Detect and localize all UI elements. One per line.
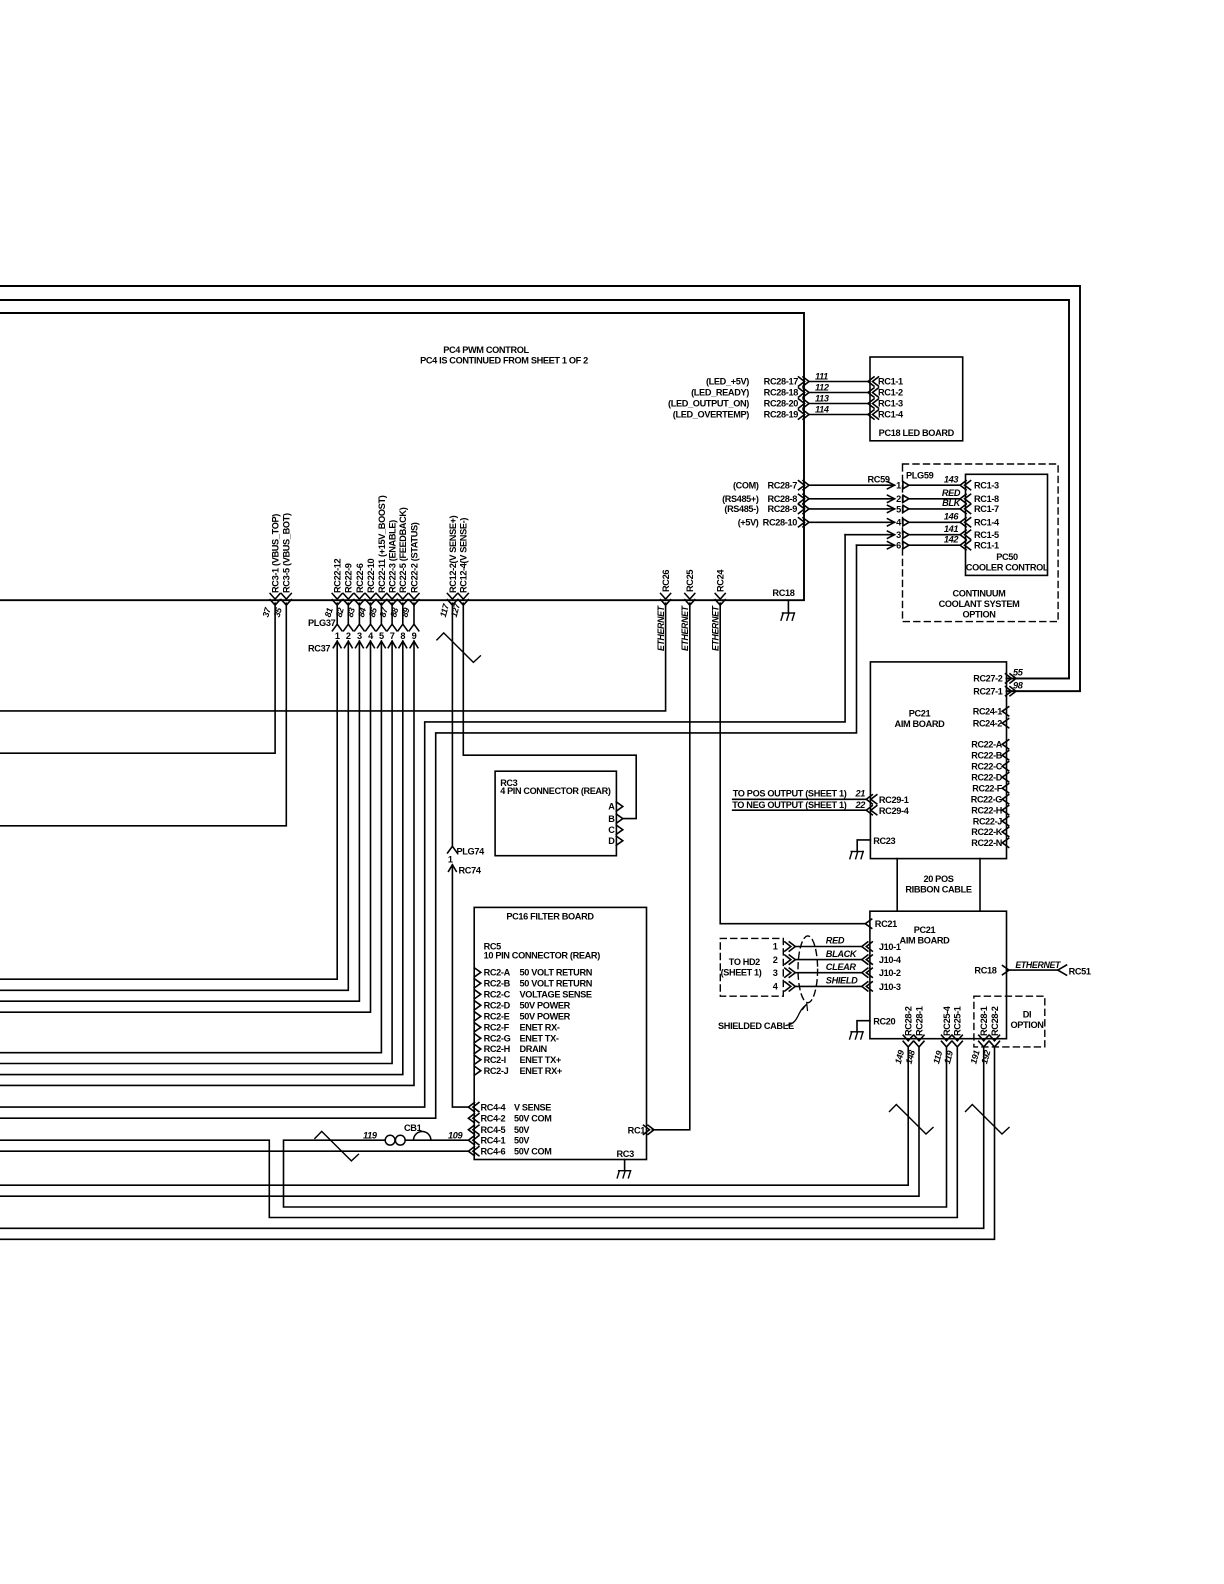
svg-text:RC51: RC51 — [1069, 967, 1091, 977]
wire PLG59 pin3 to page edge — [0, 535, 845, 1107]
svg-text:RC22-12: RC22-12 — [333, 558, 343, 593]
connector PC50 COOLER CONTROL box — [966, 474, 1048, 575]
pin RC4-1 50V — [473, 1136, 479, 1145]
svg-text:RC22-5 (FEEDBACK): RC22-5 (FEEDBACK) — [398, 507, 408, 593]
svg-text:RC2-F: RC2-F — [484, 1023, 510, 1033]
svg-text:RC4-4: RC4-4 — [481, 1102, 507, 1112]
pin RC4-6 50V COM — [473, 1147, 479, 1156]
wire RC37 pin 1 — [336, 603, 338, 624]
wire net 55 second rail — [0, 300, 1069, 678]
svg-text:RC22-G: RC22-G — [971, 794, 1003, 804]
node tap RC25 ethernet — [685, 594, 695, 600]
svg-text:146: 146 — [944, 512, 960, 522]
svg-text:ETHERNET: ETHERNET — [710, 605, 720, 651]
svg-text:RC24-2: RC24-2 — [973, 718, 1003, 728]
wire pin 5 BLK to RC1-7 — [809, 508, 888, 510]
svg-text:CB1: CB1 — [404, 1123, 422, 1133]
svg-text:RC28-9: RC28-9 — [767, 504, 797, 514]
svg-text:ENET TX+: ENET TX+ — [520, 1055, 561, 1065]
svg-text:RC1-2: RC1-2 — [878, 388, 903, 398]
svg-text:RC22-J: RC22-J — [973, 816, 1003, 826]
option box DI OPTION — [974, 996, 1045, 1047]
node tap RC3-1 wire 37 — [270, 594, 280, 600]
svg-text:RC1-4: RC1-4 — [974, 518, 1000, 528]
wire 149 to page edge — [0, 1047, 908, 1185]
pin RC22-H of AIM board — [1002, 806, 1009, 815]
pin RC22-B of AIM board — [1002, 751, 1009, 760]
connector RC3 4 PIN CONNECTOR (REAR) — [495, 771, 616, 856]
svg-text:RC26: RC26 — [661, 570, 671, 592]
svg-text:1: 1 — [896, 481, 901, 491]
svg-text:RC3-5 (VBUS_BOT): RC3-5 (VBUS_BOT) — [282, 513, 292, 593]
svg-text:DRAIN: DRAIN — [520, 1044, 548, 1054]
svg-text:2: 2 — [346, 631, 351, 641]
svg-text:RC28-17: RC28-17 — [764, 377, 799, 387]
connector PLG37 label — [308, 618, 336, 654]
breaker CB1 — [385, 1135, 395, 1145]
svg-text:J10-1: J10-1 — [879, 942, 901, 952]
svg-text:50V POWER: 50V POWER — [520, 1001, 571, 1011]
svg-text:RC28-7: RC28-7 — [767, 480, 797, 490]
wire 21 TO POS OUTPUT to RC29-1 — [733, 798, 867, 800]
svg-text:RC1-4: RC1-4 — [878, 410, 904, 420]
pin RC22-F of AIM board — [1002, 784, 1009, 793]
svg-text:RC22-K: RC22-K — [971, 827, 1003, 837]
board PC16 FILTER BOARD — [474, 907, 646, 1159]
wire RC37 pin 7 — [391, 603, 393, 624]
pin D of RC3 — [616, 836, 623, 845]
svg-text:9: 9 — [412, 631, 417, 641]
node tap RC26 ethernet — [661, 594, 671, 600]
svg-text:RC22-A: RC22-A — [971, 740, 1003, 750]
pin RC22-G of AIM board — [1002, 795, 1009, 804]
wire RED HD2 pin 1 to J10-1 — [785, 942, 791, 951]
wire pin 1 143 to RC1-3 — [809, 484, 888, 486]
label SHIELDED CABLE with leader — [718, 1021, 794, 1031]
pin B of RC3 — [616, 814, 623, 823]
svg-text:RC28-10: RC28-10 — [763, 518, 798, 528]
svg-text:RC20: RC20 — [873, 1017, 895, 1027]
svg-text:111: 111 — [815, 371, 828, 381]
pin RC28-1 wire 148 bottom of AIM board — [914, 1035, 924, 1041]
svg-text:ENET TX-: ENET TX- — [520, 1033, 559, 1043]
pin RC4-2 50V COM — [473, 1114, 479, 1123]
node tap RC22-5 wire 88 — [398, 594, 408, 600]
wire 111 RC28-17 to RC1-1 — [809, 381, 868, 383]
svg-text:VOLTAGE SENSE: VOLTAGE SENSE — [520, 990, 592, 1000]
svg-text:3: 3 — [357, 631, 362, 641]
wire pin 4 146 to RC1-4 — [809, 521, 888, 523]
wire BLACK HD2 pin 2 to J10-4 — [785, 955, 791, 964]
svg-text:CONTINUUM: CONTINUUM — [953, 589, 1007, 599]
svg-text:98: 98 — [1013, 681, 1024, 691]
svg-text:50 VOLT RETURN: 50 VOLT RETURN — [520, 979, 593, 989]
wire 37 RC3-1 VBUS_TOP — [0, 603, 275, 753]
svg-text:RC28-20: RC28-20 — [764, 399, 799, 409]
svg-text:RC2-D: RC2-D — [484, 1001, 511, 1011]
svg-text:RC3-1 (VBUS_TOP): RC3-1 (VBUS_TOP) — [271, 514, 281, 593]
wire RC24 ethernet to RC21 — [720, 603, 866, 924]
svg-text:3: 3 — [896, 530, 901, 540]
svg-text:50V: 50V — [514, 1125, 529, 1135]
svg-text:B: B — [608, 814, 615, 824]
svg-text:RC1-5: RC1-5 — [974, 530, 999, 540]
svg-text:RC12-4(V SENSE-): RC12-4(V SENSE-) — [459, 518, 469, 593]
svg-text:BLACK: BLACK — [826, 949, 858, 959]
pin RC21 of AIM board — [865, 919, 872, 928]
svg-text:RC22-F: RC22-F — [972, 783, 1003, 793]
wire 119 from AIM RC25-1 — [0, 1047, 957, 1218]
svg-text:ENET RX-: ENET RX- — [520, 1023, 560, 1033]
svg-text:55: 55 — [1013, 667, 1024, 677]
ground RC20 — [851, 1031, 863, 1033]
node tap RC22-2 wire 89 — [409, 594, 419, 600]
svg-text:RC28-2: RC28-2 — [990, 1006, 1000, 1036]
svg-text:50V COM: 50V COM — [514, 1146, 551, 1156]
wire RC20 ground stub — [857, 1021, 870, 1032]
svg-text:(RS485+): (RS485+) — [722, 494, 759, 504]
svg-text:RC4-1: RC4-1 — [481, 1135, 506, 1145]
svg-text:SHIELD: SHIELD — [826, 976, 858, 986]
svg-text:PLG74: PLG74 — [457, 847, 486, 857]
pin RC4-4 V SENSE — [473, 1103, 479, 1112]
svg-text:RC1-8: RC1-8 — [974, 494, 999, 504]
shielded cable ellipse — [798, 936, 818, 1003]
cable 20 POS RIBBON CABLE — [896, 859, 898, 912]
svg-text:PC21: PC21 — [914, 925, 936, 935]
svg-text:RC23: RC23 — [873, 836, 895, 846]
svg-text:RC25-4: RC25-4 — [942, 1005, 952, 1036]
svg-text:RC1-3: RC1-3 — [878, 399, 903, 409]
wire RC26 ethernet — [0, 603, 666, 711]
svg-text:6: 6 — [896, 541, 901, 551]
wire RC3 ground stub — [624, 1160, 626, 1171]
pin RC22-C of AIM board — [1002, 762, 1009, 771]
svg-text:7: 7 — [390, 631, 395, 641]
svg-text:RC21: RC21 — [875, 919, 897, 929]
svg-text:RC22-9: RC22-9 — [344, 563, 354, 593]
svg-text:(RS485-): (RS485-) — [724, 504, 758, 514]
svg-text:50V POWER: 50V POWER — [520, 1012, 571, 1022]
node tap RC22-6 wire 83 — [354, 594, 364, 600]
svg-text:RC22-C: RC22-C — [971, 761, 1003, 771]
svg-text:141: 141 — [944, 524, 959, 534]
wire 112 RC28-18 to RC1-2 — [809, 392, 868, 394]
wire net 98 top rail — [0, 286, 1080, 691]
pin RC22-D of AIM board — [1002, 773, 1009, 782]
svg-text:TO NEG OUTPUT (SHEET 1): TO NEG OUTPUT (SHEET 1) — [732, 800, 847, 810]
svg-text:114: 114 — [815, 404, 829, 414]
break on wires 149 148 — [890, 1105, 934, 1135]
break on RC12 sense wires — [437, 633, 481, 663]
svg-text:COOLER CONTROL: COOLER CONTROL — [966, 563, 1049, 573]
wire pin 2 RED to RC1-8 — [809, 498, 888, 500]
svg-text:109: 109 — [448, 1131, 464, 1141]
svg-text:AIM BOARD: AIM BOARD — [900, 935, 951, 945]
svg-text:RC22-3 (ENABLE): RC22-3 (ENABLE) — [388, 520, 398, 593]
svg-text:PC21: PC21 — [909, 708, 931, 718]
svg-text:119: 119 — [363, 1131, 378, 1141]
pin RC28-2 wire 192 bottom of AIM board — [990, 1035, 1000, 1041]
svg-text:RC1-7: RC1-7 — [974, 504, 999, 514]
svg-text:RC4-6: RC4-6 — [481, 1146, 506, 1156]
pin RC25-1 wire 119 bottom of AIM board — [952, 1035, 962, 1041]
pin C of RC3 — [616, 825, 623, 834]
pin RC25-4 wire 119 bottom of AIM board — [942, 1035, 952, 1041]
svg-text:1: 1 — [335, 631, 340, 641]
node tap RC22-9 wire 82 — [343, 594, 353, 600]
node tap RC12-4(V wire 127 — [458, 594, 468, 600]
node tap RC12-2(V wire 117 — [447, 594, 457, 600]
svg-text:RC22-N: RC22-N — [971, 838, 1002, 848]
svg-text:ETHERNET: ETHERNET — [1015, 960, 1061, 970]
svg-text:BLK: BLK — [942, 498, 962, 508]
node tap RC22-12 wire 81 — [332, 594, 342, 600]
pin RC24-1 of AIM board — [1002, 707, 1009, 716]
pin RC27-1 wire 98 — [1006, 687, 1012, 696]
svg-text:RC4-5: RC4-5 — [481, 1125, 506, 1135]
svg-text:22: 22 — [854, 800, 866, 810]
wire pin 6 142 to RC1-1 — [857, 544, 888, 546]
wire RC37 pin 8 — [402, 603, 404, 624]
node tap RC22-10 wire 84 — [366, 594, 376, 600]
wire 119 CB1 to RC4-1 from AIM RC25-4 — [284, 1047, 947, 1207]
svg-text:A: A — [608, 802, 615, 812]
svg-text:RC22-2 (STATUS): RC22-2 (STATUS) — [409, 522, 419, 593]
pin RC22-A of AIM board — [1002, 740, 1009, 749]
svg-text:RC3: RC3 — [617, 1149, 635, 1159]
svg-text:RED: RED — [826, 936, 845, 946]
pin RC28-1 wire 191 bottom of AIM board — [979, 1035, 989, 1041]
svg-text:RC2-I: RC2-I — [484, 1055, 506, 1065]
wire RC4-6 50V COM — [0, 1150, 468, 1152]
svg-text:COOLANT SYSTEM: COOLANT SYSTEM — [939, 599, 1021, 609]
connector PLG74 — [448, 846, 458, 853]
pin RC2-I ENET TX+ — [474, 1055, 481, 1064]
svg-text:1: 1 — [448, 855, 453, 865]
svg-text:C: C — [608, 825, 615, 835]
connector RC59 label — [868, 475, 890, 485]
svg-text:RED: RED — [942, 488, 961, 498]
pin RC27-2 wire 55 — [1006, 674, 1012, 683]
svg-text:(COM): (COM) — [733, 480, 759, 490]
pin RC28-2 wire 149 bottom of AIM board — [903, 1035, 913, 1041]
pin RC2-F ENET RX- — [474, 1023, 481, 1032]
svg-text:RC22-B: RC22-B — [971, 750, 1003, 760]
wire 191 to page edge — [0, 1047, 984, 1228]
svg-text:RC29-4: RC29-4 — [879, 806, 910, 816]
option box CONTINUUM COOLANT SYSTEM — [903, 464, 1059, 622]
wire RC18 stub — [787, 600, 789, 613]
wire pin 3 141 to RC1-5 — [845, 534, 887, 536]
svg-text:RC27-1: RC27-1 — [973, 686, 1003, 696]
svg-text:RC22-H: RC22-H — [971, 805, 1002, 815]
svg-text:RC25-1: RC25-1 — [953, 1006, 963, 1036]
svg-text:TO POS OUTPUT (SHEET 1): TO POS OUTPUT (SHEET 1) — [733, 789, 847, 799]
pin RC18 ethernet of AIM board — [1003, 966, 1010, 975]
svg-text:CLEAR: CLEAR — [826, 962, 857, 972]
svg-text:OPTION: OPTION — [962, 610, 996, 620]
wire RC74 to RC4-4 — [449, 865, 457, 872]
svg-text:4 PIN CONNECTOR (REAR): 4 PIN CONNECTOR (REAR) — [500, 786, 611, 796]
svg-text:3: 3 — [773, 968, 778, 978]
svg-text:21: 21 — [854, 789, 865, 799]
svg-text:RC22-D: RC22-D — [971, 772, 1003, 782]
svg-text:10 PIN CONNECTOR (REAR): 10 PIN CONNECTOR (REAR) — [484, 951, 601, 961]
pin RC2-B 50 VOLT RETURN — [474, 979, 481, 988]
svg-text:PC50: PC50 — [996, 552, 1018, 562]
pin RC4-5 50V — [473, 1125, 479, 1134]
svg-text:RC2-A: RC2-A — [484, 968, 511, 978]
wire RC37 pin 2 — [347, 603, 349, 624]
svg-text:RC28-18: RC28-18 — [764, 388, 799, 398]
svg-text:RC24: RC24 — [716, 569, 726, 592]
svg-text:(LED_OUTPUT_ON): (LED_OUTPUT_ON) — [668, 399, 749, 409]
svg-text:(LED_READY): (LED_READY) — [691, 388, 749, 398]
node tap RC3-5 wire 35 — [281, 594, 291, 600]
svg-text:PC18 LED BOARD: PC18 LED BOARD — [879, 428, 955, 438]
svg-text:5: 5 — [896, 504, 901, 514]
connector PC18 LED BOARD — [870, 357, 963, 441]
svg-text:RC22-11 (+15V_BOOST): RC22-11 (+15V_BOOST) — [377, 495, 387, 593]
pin RC24-2 of AIM board — [1002, 719, 1009, 728]
board PC21 AIM BOARD upper — [870, 662, 1006, 859]
pin RC1 of filter board — [644, 1125, 650, 1134]
connector PLG59 label — [906, 471, 934, 481]
connector TO HD2 (SHEET 1) box — [720, 938, 783, 996]
svg-text:RC28-19: RC28-19 — [764, 410, 799, 420]
svg-text:(SHEET 1): (SHEET 1) — [721, 968, 762, 978]
svg-text:113: 113 — [815, 393, 829, 403]
node RC51 off-page — [1058, 965, 1067, 975]
svg-text:J10-3: J10-3 — [879, 982, 901, 992]
board PC21 AIM BOARD lower — [870, 911, 1007, 1038]
wire 113 RC28-20 to RC1-3 — [809, 403, 868, 405]
svg-text:RC1-1: RC1-1 — [878, 377, 903, 387]
svg-text:RC25: RC25 — [685, 570, 695, 592]
svg-text:RC1-1: RC1-1 — [974, 540, 999, 550]
svg-text:ETHERNET: ETHERNET — [680, 605, 690, 651]
svg-text:D: D — [608, 836, 615, 846]
wire CLEAR HD2 pin 3 to J10-2 — [785, 968, 791, 977]
wire SHIELD HD2 pin 4 to J10-3 — [785, 982, 791, 991]
wire 35 RC3-5 VBUS_BOT — [0, 603, 286, 826]
svg-text:142: 142 — [944, 534, 960, 544]
wire RC12-2 V SENSE+ upper — [451, 603, 453, 846]
svg-text:RC2-H: RC2-H — [484, 1044, 511, 1054]
svg-text:PC4 IS CONTINUED FROM SHEET 1: PC4 IS CONTINUED FROM SHEET 1 OF 2 — [420, 356, 588, 366]
wire RC12-4 V SENSE- to RC3 pin B — [463, 603, 636, 818]
svg-text:RC22-10: RC22-10 — [366, 558, 376, 593]
wire 114 RC28-19 to RC1-4 — [809, 414, 868, 416]
svg-text:RC22-6: RC22-6 — [355, 563, 365, 593]
svg-text:20 POS: 20 POS — [923, 874, 953, 884]
wire 148 to page edge — [0, 1047, 919, 1196]
pin RC2-A 50 VOLT RETURN — [474, 968, 481, 977]
wire RC23 ground stub — [857, 840, 870, 852]
svg-text:RC2-C: RC2-C — [484, 990, 511, 1000]
wire RC28 bus from sheet 1 — [0, 313, 804, 600]
svg-text:RC4-2: RC4-2 — [481, 1113, 506, 1123]
svg-text:RC18: RC18 — [974, 966, 996, 976]
break on CB1 wire — [315, 1131, 359, 1161]
wire PLG59 pin6 to page edge — [0, 545, 857, 1118]
svg-text:ETHERNET: ETHERNET — [656, 605, 666, 651]
svg-text:RC28-8: RC28-8 — [767, 494, 797, 504]
ground RC23 — [851, 851, 863, 853]
svg-text:V SENSE: V SENSE — [514, 1102, 551, 1112]
svg-text:PC16 FILTER BOARD: PC16 FILTER BOARD — [506, 912, 594, 922]
svg-text:2: 2 — [896, 494, 901, 504]
svg-text:PLG37: PLG37 — [308, 618, 336, 628]
svg-text:RC2-B: RC2-B — [484, 979, 511, 989]
svg-text:J10-2: J10-2 — [879, 968, 901, 978]
svg-text:RC74: RC74 — [459, 866, 482, 876]
pin RC2-C VOLTAGE SENSE — [474, 990, 481, 999]
svg-text:RC2-J: RC2-J — [484, 1066, 509, 1076]
ground RC3 — [619, 1170, 631, 1172]
svg-text:PC4 PWM CONTROL: PC4 PWM CONTROL — [443, 345, 529, 355]
node tap RC22-11 wire 85 — [376, 594, 386, 600]
svg-text:RC2-E: RC2-E — [484, 1012, 510, 1022]
pin RC2-J ENET RX+ — [474, 1066, 481, 1075]
svg-text:PLG59: PLG59 — [906, 471, 934, 481]
svg-text:RC27-2: RC27-2 — [973, 674, 1003, 684]
svg-text:TO HD2: TO HD2 — [729, 957, 760, 967]
svg-text:RC2-G: RC2-G — [484, 1033, 511, 1043]
node tap RC22-3 wire 87 — [387, 594, 397, 600]
pin RC2-G ENET TX- — [474, 1034, 481, 1043]
pin RC2-E 50V POWER — [474, 1012, 481, 1021]
svg-text:1: 1 — [773, 942, 778, 952]
svg-text:50V COM: 50V COM — [514, 1113, 551, 1123]
pin RC22-J of AIM board — [1002, 817, 1009, 826]
break on wires 191 192 — [966, 1105, 1010, 1135]
ground RC18 — [782, 612, 794, 614]
wire RC37 pin 5 — [380, 603, 382, 624]
node tap RC24 ethernet — [715, 594, 725, 600]
svg-text:143: 143 — [944, 474, 959, 484]
svg-text:RC59: RC59 — [868, 475, 890, 485]
svg-text:RC28-1: RC28-1 — [914, 1006, 924, 1036]
svg-text:DI: DI — [1023, 1010, 1032, 1020]
svg-text:SHIELDED CABLE: SHIELDED CABLE — [718, 1021, 794, 1031]
pin RC22-K of AIM board — [1002, 827, 1009, 836]
svg-text:RC24-1: RC24-1 — [973, 707, 1003, 717]
svg-text:112: 112 — [815, 382, 830, 392]
pin RC2-D 50V POWER — [474, 1001, 481, 1010]
svg-text:RC28-2: RC28-2 — [904, 1006, 914, 1036]
wire 192 to page edge — [0, 1047, 995, 1239]
svg-text:RC28-1: RC28-1 — [979, 1006, 989, 1036]
svg-text:RC1: RC1 — [628, 1125, 646, 1135]
svg-text:RC18: RC18 — [772, 588, 794, 598]
svg-text:(+5V): (+5V) — [738, 518, 759, 528]
pin A of RC3 — [616, 802, 623, 811]
svg-text:AIM BOARD: AIM BOARD — [895, 719, 946, 729]
svg-text:2: 2 — [773, 955, 778, 965]
svg-text:ENET RX+: ENET RX+ — [520, 1066, 562, 1076]
svg-text:RC37: RC37 — [308, 644, 330, 654]
wire RC37 pin 9 — [413, 603, 415, 624]
svg-text:RC1-3: RC1-3 — [974, 480, 999, 490]
svg-text:50 VOLT RETURN: 50 VOLT RETURN — [520, 968, 593, 978]
svg-text:RC12-2(V SENSE+): RC12-2(V SENSE+) — [448, 515, 458, 593]
wire RC37 pin 3 — [358, 603, 360, 624]
svg-text:OPTION: OPTION — [1010, 1020, 1044, 1030]
svg-text:J10-4: J10-4 — [879, 955, 902, 965]
svg-text:8: 8 — [400, 631, 405, 641]
